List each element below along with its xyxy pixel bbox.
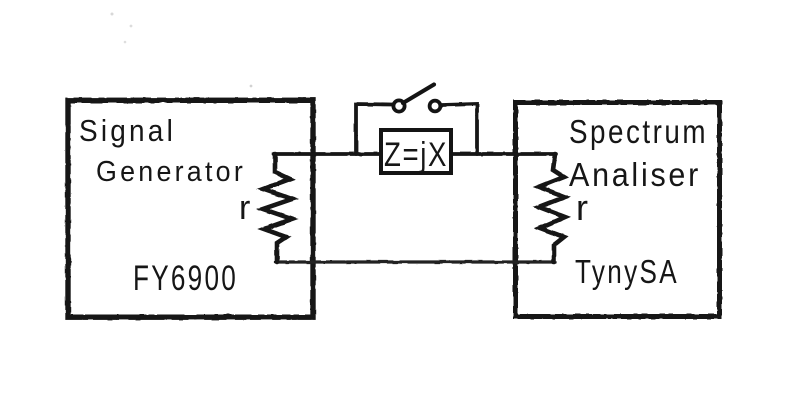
svg-text:TynySA: TynySA <box>575 254 679 291</box>
svg-text:FY6900: FY6900 <box>133 259 238 298</box>
wire: top main horizontal (generator output to Z box) <box>274 152 381 156</box>
label: Spectrum <box>569 114 708 151</box>
svg-text:Generator: Generator <box>96 156 246 188</box>
svg-text:Signal: Signal <box>79 114 176 148</box>
label: Signal <box>79 114 176 148</box>
box: Signal Generator FY6900 <box>68 100 313 317</box>
impedance box Z=jX <box>381 130 451 174</box>
label: r (right resistor value) <box>576 187 588 228</box>
svg-text:Z=jX: Z=jX <box>384 136 448 174</box>
wire: switch branch left riser <box>356 104 392 154</box>
svg-text:r: r <box>239 189 250 227</box>
switch S1 left contact <box>393 100 404 111</box>
switch S1 right contact <box>430 101 441 112</box>
svg-text:Analiser: Analiser <box>569 157 701 194</box>
box: Spectrum Analiser TynySA <box>516 103 720 317</box>
wire: top main horizontal (Z box to analyser) <box>452 152 556 156</box>
svg-text:Spectrum: Spectrum <box>569 114 708 151</box>
smudge marks (scan artifacts) <box>111 13 253 88</box>
svg-text:r: r <box>576 187 588 228</box>
label: TynySA <box>575 254 679 291</box>
resistor r (right, analyser input impedance) <box>539 154 565 262</box>
label: Generator <box>96 156 246 188</box>
label: Analiser <box>569 157 701 194</box>
label: FY6900 <box>133 259 238 298</box>
label: r (left resistor value) <box>239 189 250 227</box>
wire: switch branch right riser <box>442 104 477 154</box>
wire: bottom return (generator to analyser) <box>276 260 555 263</box>
switch S1 lever (open) <box>403 85 434 104</box>
resistor r (left, source impedance) <box>263 154 292 262</box>
